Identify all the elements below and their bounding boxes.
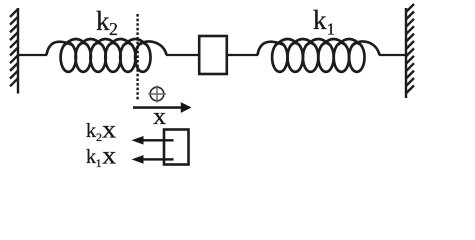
force arrow k1x xyxy=(132,155,174,164)
svg-text:x: x xyxy=(153,104,166,130)
svg-text:x: x xyxy=(102,142,117,169)
circled plus sign convention xyxy=(148,85,166,102)
svg-text:1: 1 xyxy=(327,19,336,38)
wire from spring k2 to mass xyxy=(166,54,199,56)
svg-text:k: k xyxy=(96,6,110,36)
x direction arrow xyxy=(133,102,192,113)
svg-text:2: 2 xyxy=(109,19,118,39)
svg-text:2: 2 xyxy=(96,130,102,144)
svg-text:x: x xyxy=(102,117,117,144)
wire from mass to spring k1 xyxy=(227,54,258,56)
FBD mass block xyxy=(164,130,189,165)
wire from left wall to spring k2 xyxy=(18,54,47,56)
force arrow k2x xyxy=(132,136,174,145)
mass block xyxy=(199,36,227,74)
spring k1 xyxy=(258,39,380,72)
right wall xyxy=(406,4,414,98)
svg-text:k: k xyxy=(86,120,96,142)
svg-text:k: k xyxy=(86,146,96,168)
svg-text:1: 1 xyxy=(96,156,102,170)
spring k2 xyxy=(47,39,167,72)
left wall xyxy=(10,8,18,94)
wire from spring k1 to right wall xyxy=(379,54,406,56)
dotted equilibrium line xyxy=(136,14,138,101)
svg-text:k: k xyxy=(313,5,327,35)
